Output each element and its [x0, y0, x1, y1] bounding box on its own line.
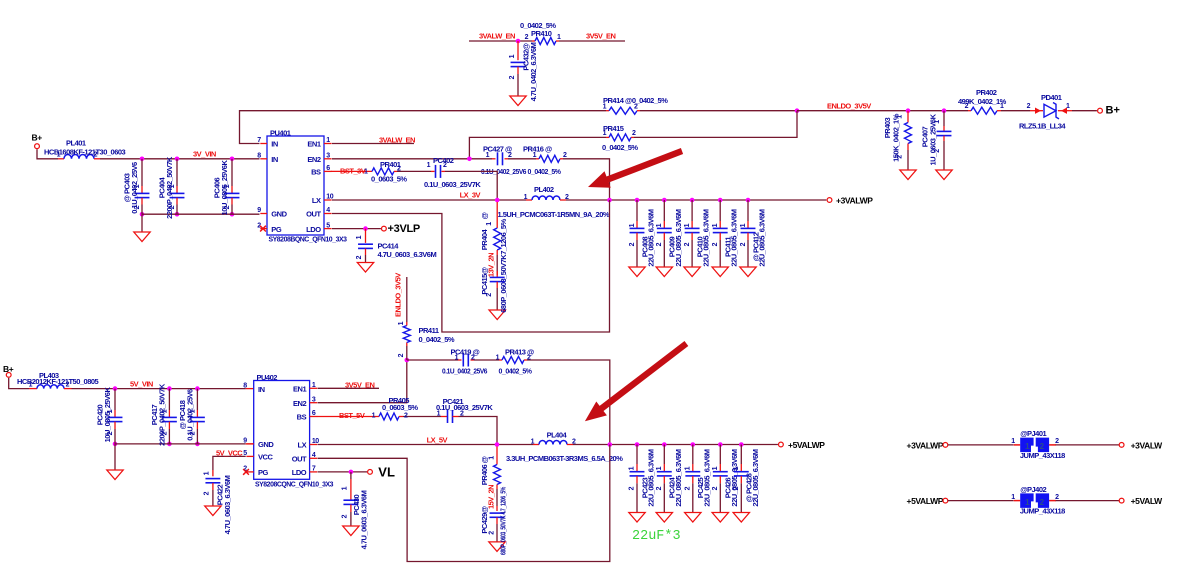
svg-text:1: 1 [524, 194, 528, 201]
svg-text:1: 1 [57, 152, 61, 159]
svg-text:1: 1 [427, 162, 431, 169]
svg-text:1: 1 [364, 169, 368, 176]
svg-text:1: 1 [107, 409, 114, 413]
svg-text:22U_0805_6.3V6M: 22U_0805_6.3V6M [647, 449, 656, 506]
svg-text:EN2: EN2 [293, 399, 307, 408]
svg-text:2: 2 [629, 486, 636, 490]
svg-text:PU402: PU402 [257, 373, 278, 382]
svg-text:5V_VIN: 5V_VIN [130, 379, 153, 388]
svg-text:2: 2 [134, 205, 141, 209]
svg-text:PR416 @: PR416 @ [523, 145, 552, 154]
svg-text:1: 1 [398, 321, 405, 325]
svg-text:EN2: EN2 [307, 155, 321, 164]
svg-text:0_0402_5%: 0_0402_5% [528, 167, 562, 176]
svg-text:1: 1 [684, 223, 691, 227]
svg-text:1: 1 [712, 466, 719, 470]
svg-text:EN1: EN1 [293, 385, 307, 394]
svg-text:2: 2 [189, 431, 196, 435]
svg-text:2: 2 [1055, 438, 1059, 445]
svg-text:1: 1 [496, 354, 500, 361]
svg-text:1: 1 [684, 466, 691, 470]
svg-text:1: 1 [1025, 498, 1030, 507]
svg-text:0.1U_0603_25V7K: 0.1U_0603_25V7K [424, 180, 481, 189]
svg-text:PU401: PU401 [270, 128, 291, 137]
svg-text:2: 2 [656, 242, 663, 246]
svg-text:+3VLP: +3VLP [388, 223, 420, 235]
svg-text:2: 2 [508, 152, 512, 159]
svg-text:+3VALWP: +3VALWP [836, 195, 873, 205]
svg-text:VL: VL [378, 465, 395, 480]
svg-text:1: 1 [603, 104, 607, 111]
svg-text:EN1: EN1 [307, 140, 321, 149]
svg-text:22U_0805_6.3V6M: 22U_0805_6.3V6M [647, 209, 656, 266]
svg-text:1: 1 [134, 184, 141, 188]
svg-text:PG: PG [258, 468, 269, 477]
svg-text:@PJ401: @PJ401 [1020, 429, 1046, 438]
svg-text:JUMP_43X118: JUMP_43X118 [1020, 451, 1065, 460]
svg-text:1: 1 [486, 152, 490, 159]
svg-text:PR410: PR410 [531, 29, 552, 38]
svg-text:1: 1 [29, 381, 33, 388]
svg-text:0.1U_0603_25V7K: 0.1U_0603_25V7K [436, 403, 493, 412]
svg-text:22U_0805_6.3V6M: 22U_0805_6.3V6M [751, 449, 760, 506]
svg-text:LX: LX [312, 196, 321, 205]
svg-text:22U_0805_6.3V6M: 22U_0805_6.3V6M [730, 449, 739, 506]
svg-text:LDO: LDO [306, 225, 321, 234]
svg-text:2: 2 [527, 354, 531, 361]
svg-text:+3VALW: +3VALW [1131, 440, 1164, 450]
svg-text:PR406: PR406 [480, 464, 489, 485]
svg-text:1.5UH_PCMC063T-1R5MN_9A_20%: 1.5UH_PCMC063T-1R5MN_9A_20% [498, 210, 610, 219]
svg-text:1: 1 [733, 466, 740, 470]
svg-text:1: 1 [224, 184, 231, 188]
svg-text:B+: B+ [3, 364, 14, 374]
svg-text:2: 2 [684, 486, 691, 490]
svg-text:2: 2 [656, 486, 663, 490]
svg-text:1: 1 [509, 54, 516, 58]
svg-text:8: 8 [243, 382, 247, 389]
svg-text:2: 2 [965, 103, 969, 110]
svg-text:1: 1 [1000, 103, 1004, 110]
svg-text:2: 2 [509, 75, 516, 79]
svg-text:2: 2 [488, 531, 495, 535]
svg-text:+5VALWP: +5VALWP [907, 496, 944, 506]
svg-text:2: 2 [1040, 498, 1045, 507]
svg-text:22U_0805_6.3V6M: 22U_0805_6.3V6M [702, 449, 711, 506]
svg-text:1: 1 [656, 466, 663, 470]
svg-text:5: 5 [326, 222, 330, 229]
svg-text:BST_3V: BST_3V [340, 167, 366, 176]
svg-text:PL402: PL402 [534, 185, 554, 194]
svg-text:4.7U_0603_6.3V6M: 4.7U_0603_6.3V6M [360, 490, 369, 549]
svg-text:3: 3 [312, 396, 316, 403]
svg-text:0_0603_5%: 0_0603_5% [371, 175, 407, 184]
svg-text:3VALW_EN: 3VALW_EN [479, 32, 515, 41]
svg-text:JUMP_43X118: JUMP_43X118 [1020, 507, 1065, 516]
svg-text:2: 2 [629, 242, 636, 246]
svg-text:2200P_0402_50V7K: 2200P_0402_50V7K [157, 383, 166, 446]
svg-text:PD401: PD401 [1041, 93, 1062, 102]
svg-text:PC429@: PC429@ [480, 506, 489, 533]
svg-text:1: 1 [356, 235, 363, 239]
svg-text:PR411: PR411 [419, 326, 439, 335]
svg-text:+3VALWP: +3VALWP [907, 440, 944, 450]
svg-text:2: 2 [66, 381, 70, 388]
svg-text:PG: PG [271, 225, 282, 234]
svg-text:VCC: VCC [258, 453, 274, 462]
svg-text:IN: IN [258, 385, 265, 394]
svg-text:PC402: PC402 [433, 156, 454, 165]
svg-text:2: 2 [684, 242, 691, 246]
svg-text:LX_5V: LX_5V [427, 435, 448, 444]
svg-text:1: 1 [455, 354, 459, 361]
svg-text:PL404: PL404 [547, 431, 568, 440]
svg-text:1: 1 [656, 223, 663, 227]
svg-text:BST_5V: BST_5V [339, 411, 365, 420]
svg-text:15V_2N: 15V_2N [486, 485, 495, 509]
svg-text:0_0402_5%: 0_0402_5% [602, 143, 638, 152]
svg-text:1: 1 [342, 486, 349, 490]
svg-text:+5VALW: +5VALW [1131, 496, 1164, 506]
svg-text:2: 2 [733, 486, 740, 490]
svg-text:2: 2 [107, 431, 114, 435]
svg-text:22U_0805_6.3V6M: 22U_0805_6.3V6M [758, 209, 767, 266]
svg-text:1: 1 [372, 412, 376, 419]
svg-text:2: 2 [525, 34, 529, 41]
svg-text:PC415@: PC415@ [480, 267, 489, 294]
svg-text:0_0402_5%: 0_0402_5% [499, 367, 533, 376]
svg-text:LX: LX [298, 441, 307, 450]
svg-text:680P_0603_50V7K7_1206_5%: 680P_0603_50V7K7_1206_5% [499, 218, 508, 312]
svg-text:9: 9 [257, 207, 261, 214]
svg-text:1: 1 [897, 115, 904, 119]
svg-text:IN: IN [271, 155, 278, 164]
svg-text:1: 1 [712, 223, 719, 227]
svg-text:PR401: PR401 [380, 160, 401, 169]
svg-text:OUT: OUT [292, 455, 307, 464]
svg-text:2: 2 [94, 152, 98, 159]
svg-text:B+: B+ [1106, 104, 1120, 116]
svg-text:2: 2 [712, 242, 719, 246]
svg-text:5V_VCC: 5V_VCC [216, 448, 243, 457]
svg-text:ENLDO_3V5V: ENLDO_3V5V [394, 273, 403, 317]
svg-text:2: 2 [897, 155, 904, 159]
svg-text:6: 6 [326, 165, 330, 172]
svg-text:IN: IN [271, 140, 278, 149]
svg-text:3: 3 [326, 153, 330, 160]
svg-text:2: 2 [632, 130, 636, 137]
svg-text:1: 1 [486, 222, 493, 226]
svg-text:1: 1 [169, 184, 176, 188]
svg-text:1: 1 [740, 223, 747, 227]
svg-text:+5VALWP: +5VALWP [788, 440, 825, 450]
svg-text:3V_VIN: 3V_VIN [193, 149, 216, 158]
svg-text:9: 9 [243, 438, 247, 445]
svg-text:2: 2 [1055, 494, 1059, 501]
svg-text:680P_0603_50V7K 4.7_1206_5%: 680P_0603_50V7K 4.7_1206_5% [499, 486, 508, 555]
svg-text:2: 2 [1040, 442, 1045, 451]
svg-text:1: 1 [1066, 103, 1070, 110]
svg-text:1: 1 [531, 439, 535, 446]
svg-text:SY8208CQNC_QFN10_3X3: SY8208CQNC_QFN10_3X3 [255, 479, 333, 488]
svg-text:1: 1 [1011, 438, 1015, 445]
svg-text:2: 2 [161, 431, 168, 435]
svg-text:PR415: PR415 [603, 124, 624, 133]
svg-text:2: 2 [712, 486, 719, 490]
svg-text:2: 2 [169, 205, 176, 209]
svg-text:3V5V_EN: 3V5V_EN [345, 380, 375, 389]
svg-text:1: 1 [189, 409, 196, 413]
svg-text:22U_0805_6.3V6M: 22U_0805_6.3V6M [702, 209, 711, 266]
svg-text:2: 2 [572, 439, 576, 446]
svg-text:4.7U_0402_6.3V6M: 4.7U_0402_6.3V6M [529, 42, 538, 101]
svg-text:22U_0805_6.3V6M: 22U_0805_6.3V6M [730, 209, 739, 266]
svg-text:LX_3V: LX_3V [460, 191, 481, 200]
svg-text:2: 2 [486, 293, 493, 297]
svg-text:2: 2 [934, 149, 941, 153]
svg-text:4.7U_0603_6.3V6M: 4.7U_0603_6.3V6M [223, 475, 232, 534]
svg-text:2: 2 [471, 354, 475, 361]
svg-text:3V5V_EN: 3V5V_EN [586, 32, 616, 41]
svg-text:1: 1 [629, 223, 636, 227]
svg-text:PR402: PR402 [976, 88, 997, 97]
svg-text:1: 1 [326, 137, 330, 144]
svg-text:SY8208BQNC_QFN10_3X3: SY8208BQNC_QFN10_3X3 [269, 234, 347, 243]
svg-text:1: 1 [934, 120, 941, 124]
svg-text:1: 1 [488, 456, 495, 460]
svg-text:4: 4 [312, 452, 316, 459]
svg-text:150K_0402_1%: 150K_0402_1% [892, 113, 901, 162]
svg-text:BS: BS [297, 413, 307, 422]
svg-text:1: 1 [312, 382, 316, 389]
svg-text:2: 2 [563, 152, 567, 159]
svg-text:2: 2 [398, 353, 405, 357]
svg-text:2: 2 [204, 491, 211, 495]
svg-text:1: 1 [1011, 494, 1015, 501]
svg-text:OUT: OUT [306, 210, 321, 219]
svg-text:2: 2 [740, 242, 747, 246]
svg-text:1: 1 [557, 34, 561, 41]
svg-text:4: 4 [326, 207, 330, 214]
svg-text:2: 2 [356, 255, 363, 259]
svg-text:1: 1 [204, 471, 211, 475]
svg-text:PL401: PL401 [66, 139, 86, 148]
svg-text:PR404: PR404 [480, 228, 489, 250]
svg-text:7: 7 [312, 466, 316, 473]
svg-text:2: 2 [1027, 103, 1031, 110]
svg-text:0_0402_5%: 0_0402_5% [419, 335, 455, 344]
svg-text:BS: BS [311, 168, 321, 177]
svg-text:1: 1 [1025, 442, 1030, 451]
svg-text:4.7U_0603_6.3V6M: 4.7U_0603_6.3V6M [378, 250, 437, 259]
svg-text:1: 1 [603, 130, 607, 137]
svg-text:22U_0805_6.3V6M: 22U_0805_6.3V6M [674, 209, 683, 266]
svg-text:1: 1 [161, 409, 168, 413]
svg-text:1: 1 [629, 466, 636, 470]
svg-text:2: 2 [565, 194, 569, 201]
svg-text:@: @ [480, 212, 489, 219]
svg-text:B+: B+ [32, 133, 43, 143]
svg-text:0_0603_5%: 0_0603_5% [382, 403, 418, 412]
svg-text:2: 2 [342, 514, 349, 518]
svg-text:RLZ5.1B_LL34: RLZ5.1B_LL34 [1019, 122, 1066, 131]
svg-text:2: 2 [224, 205, 231, 209]
svg-text:LDO: LDO [292, 468, 307, 477]
svg-text:GND: GND [271, 210, 287, 219]
svg-text:0.1U_0402_25V6: 0.1U_0402_25V6 [442, 367, 487, 376]
svg-text:6: 6 [312, 410, 316, 417]
svg-text:GND: GND [258, 440, 274, 449]
svg-text:2: 2 [404, 412, 408, 419]
svg-text:22U_0805_6.3V6M: 22U_0805_6.3V6M [674, 449, 683, 506]
svg-text:3VALW_EN: 3VALW_EN [379, 136, 415, 145]
svg-text:3.3UH_PCMB063T-3R3MS_6.5A_20%: 3.3UH_PCMB063T-3R3MS_6.5A_20% [506, 454, 623, 463]
svg-text:8: 8 [257, 153, 261, 160]
svg-text:@PJ402: @PJ402 [1020, 485, 1046, 494]
svg-text:1: 1 [533, 152, 537, 159]
svg-text:ENLDO_3V5V: ENLDO_3V5V [827, 101, 871, 110]
svg-text:2: 2 [634, 104, 638, 111]
svg-text:22uF*3: 22uF*3 [632, 529, 681, 544]
